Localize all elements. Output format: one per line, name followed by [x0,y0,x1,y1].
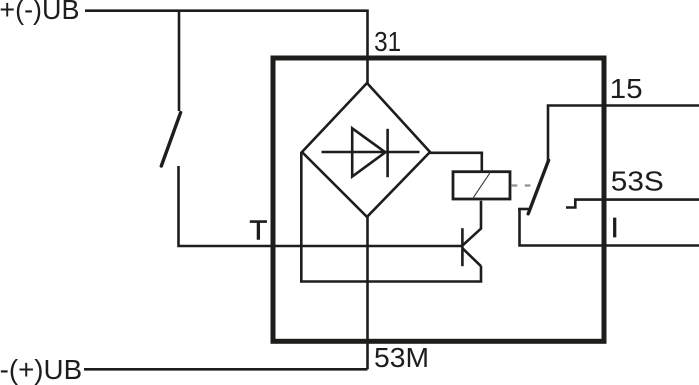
wire terminal I [520,209,699,246]
svg-text:-(+)UB: -(+)UB [0,354,82,385]
relay coil slash [473,172,491,199]
bridge rectifier diamond [302,83,430,217]
switch S blade (open) [161,113,180,166]
relay contact armature [528,160,548,214]
relay coil K [453,172,510,199]
wire -UB supply bottom [84,368,368,371]
transistor base bar [461,228,464,266]
wire terminal 15 [548,106,699,162]
svg-text:I: I [611,212,619,243]
wire switch to terminal T and transistor base [179,166,463,246]
svg-text:31: 31 [374,26,401,57]
wire diamond right vertex to coil top [430,153,482,172]
wire diamond left vertex to transistor emitter [301,152,481,282]
diode cathode bar [386,129,389,177]
wire +UB supply to terminal 31 [85,11,368,83]
svg-text:53S: 53S [611,166,664,197]
svg-text:15: 15 [610,73,643,104]
wire coil bottom to transistor collector [463,201,481,246]
diode horizontal lead [322,151,420,154]
svg-text:53M: 53M [374,342,429,373]
53S fixed contact and wire [566,200,699,208]
relay box outline [273,58,604,341]
transistor emitter line [463,249,481,267]
diode D triangle [352,128,385,176]
contact pivot seat [518,208,529,211]
dashed mechanical link coil to contact [512,184,539,186]
svg-text:+(-)UB: +(-)UB [0,0,79,25]
svg-text:T: T [249,215,267,246]
wire branch to switch [178,11,181,111]
wire diamond bottom to terminal 53M [366,217,369,369]
